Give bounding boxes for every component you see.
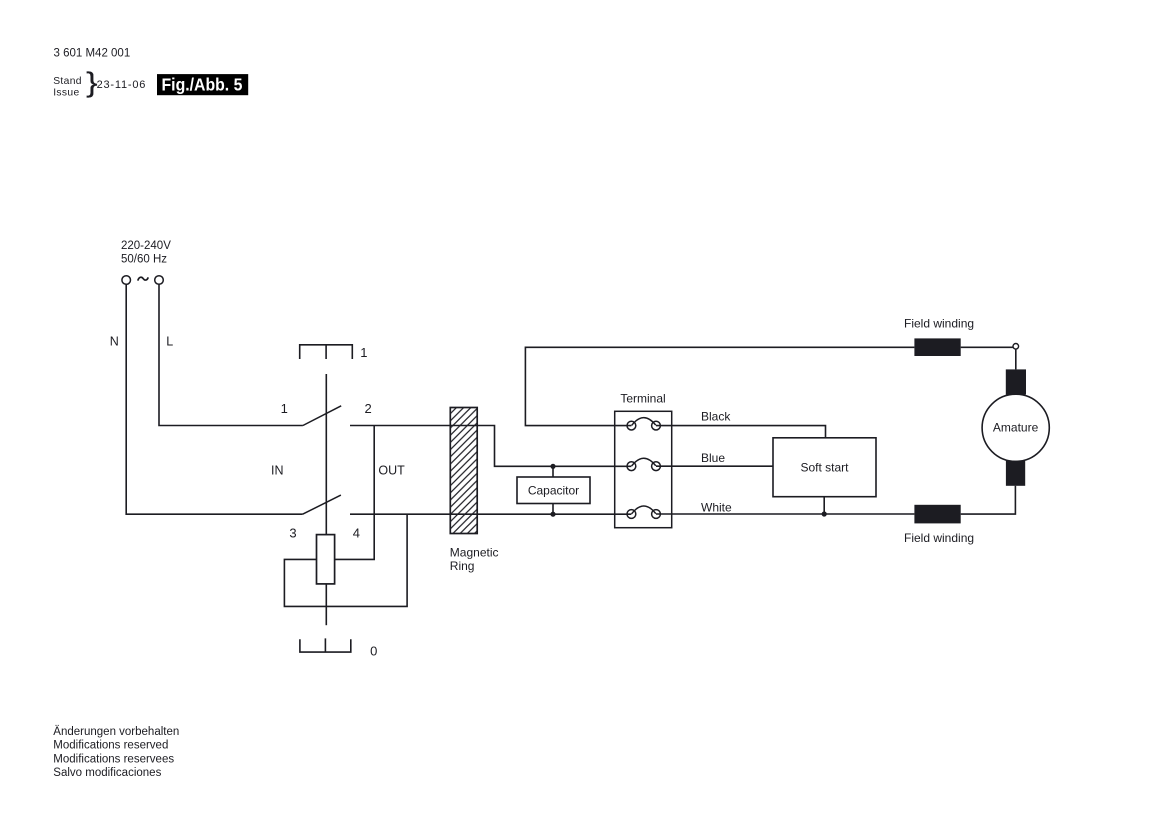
svg-text:Modifications reserved: Modifications reserved (53, 740, 168, 752)
black wire to soft start top (656, 426, 826, 438)
wire from contact 4 through magnetic ring to terminal bottom row (350, 513, 631, 515)
wire from bottom brush to bottom field winding (961, 486, 1016, 514)
svg-text:Capacitor: Capacitor (528, 484, 579, 498)
svg-text:IN: IN (271, 464, 284, 478)
wire OUT vertical down to resistor right (335, 426, 375, 560)
svg-text:Field winding: Field winding (904, 531, 974, 545)
junction dot (822, 511, 827, 516)
blue wire to soft start left (656, 465, 773, 467)
svg-text:Field winding: Field winding (904, 316, 974, 330)
capacitor C box (517, 477, 590, 504)
svg-text:Blue: Blue (701, 451, 725, 465)
terminal L circle (155, 276, 164, 285)
switch blade 1-2 (303, 406, 341, 426)
wire N down and right to switch contact 3 (126, 284, 302, 514)
soft start module U1 (773, 438, 876, 497)
svg-text:220-240V: 220-240V (121, 240, 171, 252)
svg-text:Black: Black (701, 410, 731, 424)
svg-text:Issue: Issue (53, 87, 79, 98)
svg-text:L: L (166, 334, 173, 348)
capacitor top stub wire (552, 466, 554, 477)
white wire to bottom field winding (656, 513, 914, 515)
wire from armature loop down to terminal top row (525, 347, 914, 425)
wire down to top brush (1015, 349, 1017, 369)
AC tilde (138, 277, 148, 280)
svg-text:Fig./Abb. 5: Fig./Abb. 5 (162, 75, 243, 95)
svg-text:N: N (110, 334, 119, 348)
switch position bracket 0 (300, 638, 351, 652)
junction dot (550, 512, 555, 517)
top brush (1006, 369, 1026, 394)
svg-text:50/60 Hz: 50/60 Hz (121, 253, 167, 265)
svg-text:OUT: OUT (378, 464, 405, 478)
svg-text:Modifications reservees: Modifications reservees (53, 753, 174, 765)
armature M1 (982, 394, 1049, 461)
wire from contact 2 through magnetic ring then down to terminal middle row (350, 426, 631, 467)
switch pole wire (325, 374, 327, 535)
svg-text:Terminal: Terminal (620, 392, 665, 406)
svg-text:White: White (701, 501, 732, 515)
switch position bracket 1 (300, 345, 353, 359)
terminal contact middle row (627, 458, 660, 470)
svg-text:0: 0 (370, 644, 377, 659)
terminal N circle (122, 276, 131, 285)
svg-text:Soft start: Soft start (800, 461, 849, 475)
wire from field winding to brush node (961, 346, 1013, 348)
svg-text:1: 1 (281, 401, 288, 416)
field winding bottom (inductor) (914, 505, 960, 524)
svg-text:Ring: Ring (450, 559, 475, 573)
figure label box (157, 74, 248, 95)
resistor bypass loop wire (284, 514, 407, 606)
svg-text:4: 4 (353, 526, 360, 541)
svg-text:Salvo modificaciones: Salvo modificaciones (53, 767, 161, 779)
wire below resistor (325, 584, 327, 625)
field winding top (inductor) (914, 338, 960, 356)
bottom brush (1006, 461, 1025, 486)
terminal contact bottom row (627, 506, 660, 518)
terminal contact top row (627, 418, 660, 430)
switch blade 3-4 (303, 495, 341, 514)
svg-text:2: 2 (364, 401, 371, 416)
terminal block box (615, 411, 672, 527)
svg-text:Änderungen vorbehalten: Änderungen vorbehalten (53, 726, 179, 738)
svg-text:1: 1 (360, 345, 367, 360)
capacitor bottom stub wire (552, 504, 554, 515)
brush terminal node circle (1013, 344, 1019, 350)
svg-text:Magnetic: Magnetic (450, 546, 499, 560)
soft start bottom stub (823, 497, 825, 514)
junction dot (550, 464, 555, 469)
svg-text:3 601 M42 001: 3 601 M42 001 (54, 48, 131, 60)
resistor R (soft start resistor) (317, 535, 335, 584)
svg-text:Stand: Stand (53, 76, 82, 87)
svg-text:23-11-06: 23-11-06 (97, 79, 147, 91)
wire L down and right to switch contact 1 (159, 284, 303, 425)
magnetic ring (hatched) (450, 408, 477, 534)
svg-text:Amature: Amature (993, 421, 1039, 435)
svg-text:3: 3 (289, 526, 296, 541)
